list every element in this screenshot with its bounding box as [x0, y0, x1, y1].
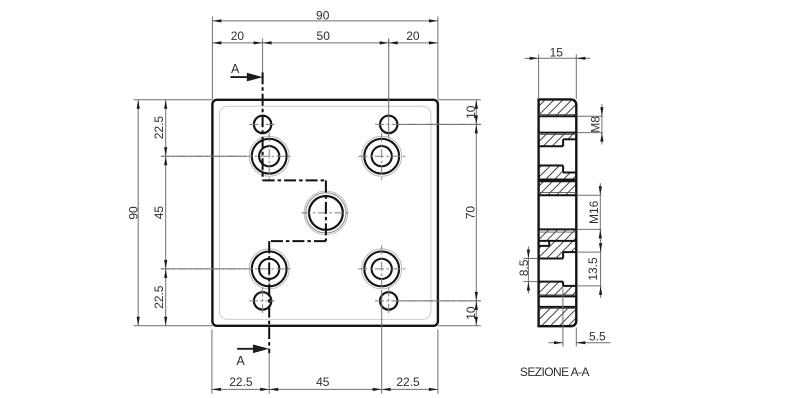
extension lines 13.5 dim — [578, 251, 602, 253]
extension lines M8 dim — [578, 115, 603, 117]
svg-text:5.5: 5.5 — [589, 330, 606, 344]
extension lines 5.5 dim — [562, 289, 564, 347]
svg-text:10: 10 — [464, 105, 478, 119]
svg-text:M8: M8 — [588, 116, 602, 133]
section: lower counterbore step — [563, 251, 576, 253]
tapped hole M8 bottom-left — [254, 292, 271, 309]
svg-text:A: A — [236, 354, 245, 368]
section line A-A segment 4 (horizontal step lower) — [269, 240, 326, 242]
svg-text:SEZIONE A-A: SEZIONE A-A — [520, 365, 590, 379]
tapped hole M8 top-left — [254, 116, 271, 133]
counterbored hole 13.5/8.5 top-right — [362, 136, 402, 176]
section: bottom M8 hole chord (bold edges + thread lines) — [539, 294, 577, 296]
dimension 90 (top overall width) — [212, 20, 438, 22]
section: step notch left — [539, 245, 550, 247]
extension lines left dims — [134, 99, 213, 101]
section: step edge lower — [539, 240, 577, 242]
svg-text:50: 50 — [317, 29, 331, 43]
plate outline (front view) — [212, 100, 438, 326]
centerline M16 center — [301, 212, 350, 214]
dimension 8.5 (through hole dia) — [527, 259, 529, 282]
dimension M8 (top tapped hole) — [601, 116, 603, 132]
svg-text:22.5: 22.5 — [152, 285, 166, 309]
svg-text:10: 10 — [464, 306, 478, 320]
section line A-A segment 1 (vertical through top M8) — [262, 72, 264, 180]
extension lines top dims — [211, 16, 213, 99]
section A-A outline — [539, 99, 577, 326]
svg-text:15: 15 — [550, 45, 564, 59]
centerline M8 bottom-right — [375, 300, 481, 302]
svg-text:22.5: 22.5 — [396, 375, 420, 389]
tapped hole M16 center — [304, 191, 348, 235]
svg-text:22.5: 22.5 — [229, 375, 253, 389]
dimension 22.5-45-22.5 (left) — [165, 100, 167, 326]
section arrow A bottom — [237, 348, 260, 350]
centerline M8 bottom-left — [249, 300, 276, 302]
svg-text:70: 70 — [463, 206, 477, 220]
extension lines 15 dim — [538, 54, 540, 99]
svg-text:20: 20 — [231, 29, 245, 43]
svg-text:A: A — [231, 62, 240, 76]
centerline M8 top-left — [249, 123, 276, 125]
svg-text:M16: M16 — [587, 200, 601, 224]
dimension 15 (section thickness) — [539, 57, 577, 59]
section line A-A segment 3 (vertical through M16) — [325, 180, 327, 241]
svg-text:45: 45 — [152, 206, 166, 220]
dimension 5.5 (counterbore depth) — [549, 342, 563, 344]
extension lines 8.5 dim — [523, 258, 537, 260]
tapped hole M8 bottom-right — [380, 292, 397, 309]
tapped hole M8 top-right — [380, 116, 397, 133]
counterbored hole 13.5/8.5 bottom-right — [362, 249, 402, 289]
svg-text:90: 90 — [126, 206, 140, 220]
extension lines M16 dim — [578, 194, 602, 196]
centerline counterbore bottom-left — [161, 268, 293, 270]
svg-text:20: 20 — [406, 29, 420, 43]
counterbored hole 13.5/8.5 bottom-left — [249, 249, 289, 289]
plate face fillet tangent (inner offset) — [219, 106, 431, 319]
centerline M8 top-right — [375, 123, 481, 125]
section line A-A segment 5 (vertical through bottom counterbore) — [268, 241, 270, 353]
svg-text:22.5: 22.5 — [152, 116, 166, 140]
section: M16 hole (bold edges + thread lines) — [539, 192, 577, 194]
dimension 10-70-10 (right) — [475, 100, 477, 326]
section arrow A top — [230, 76, 254, 78]
extension lines right dims — [438, 99, 481, 101]
extension lines bottom dims — [211, 330, 213, 394]
dimension 22.5-45-22.5 (bottom) — [212, 388, 438, 390]
section: M8 hole top (bold edges + thread lines) — [539, 113, 577, 115]
section line A-A segment 2 (horizontal step upper) — [263, 179, 326, 181]
dimension 90 (left overall height) — [137, 100, 139, 326]
centerline counterbore top-left — [161, 155, 293, 157]
dimension 13.5 (counterbore dia) — [600, 252, 602, 286]
dimension M16 (center tapped hole) — [599, 195, 601, 229]
svg-text:13.5: 13.5 — [586, 257, 600, 281]
section: step edge upper — [539, 179, 577, 181]
svg-text:8.5: 8.5 — [517, 259, 531, 276]
svg-text:90: 90 — [316, 8, 330, 22]
centerline counterbore top-right — [358, 155, 405, 157]
centerline counterbore bottom-right — [358, 268, 405, 270]
svg-text:45: 45 — [316, 375, 330, 389]
dimension 20-50-20 (top) — [212, 42, 438, 44]
section: upper counterbore step — [563, 138, 576, 140]
counterbored hole 13.5/8.5 top-left — [249, 136, 289, 176]
